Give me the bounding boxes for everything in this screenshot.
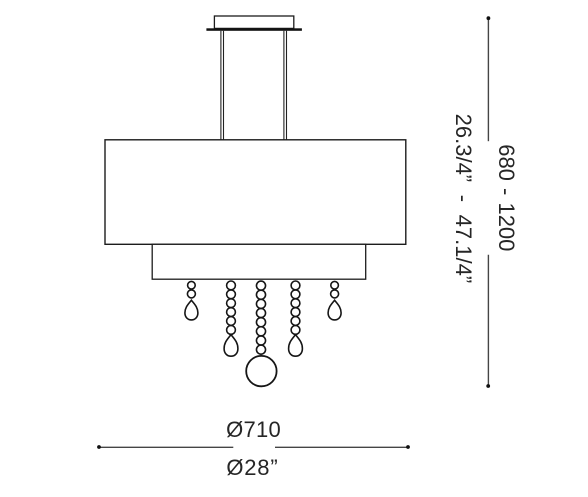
lamp shade (drum): [105, 140, 406, 245]
inner diffuser box: [152, 244, 366, 279]
svg-text:Ø710: Ø710: [226, 417, 281, 442]
horizontal dimension line: [99, 446, 408, 448]
crystal strand 2 (medium): [224, 281, 238, 356]
crystal strand 4 (medium): [289, 281, 303, 356]
ceiling plate: [206, 28, 302, 31]
left rod: [221, 31, 224, 140]
canopy (ceiling cup): [214, 16, 293, 28]
vertical dimension line: [487, 18, 489, 386]
crystal strand 5 (short, right): [328, 281, 341, 319]
crystal strand 1 (short, left): [185, 281, 198, 319]
crystal strand 3 (center, long with ball): [246, 281, 276, 386]
svg-text:26.3/4” - 47.1/4”: 26.3/4” - 47.1/4”: [451, 114, 476, 284]
svg-text:680 - 1200: 680 - 1200: [494, 144, 519, 251]
svg-text:Ø28”: Ø28”: [226, 455, 278, 480]
dimension dots: [487, 16, 491, 20]
right rod: [284, 31, 287, 140]
